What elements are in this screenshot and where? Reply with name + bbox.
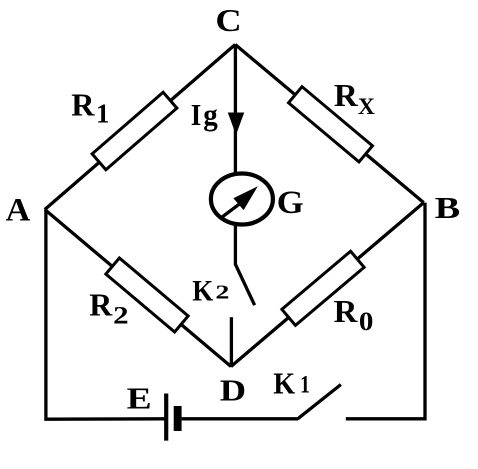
wire galvanometer to K2	[234, 226, 237, 265]
switch K2 blade	[235, 264, 254, 305]
node C label	[215, 2, 241, 38]
svg-text:C: C	[215, 2, 241, 38]
resistor R0	[282, 251, 364, 325]
label K2	[192, 274, 229, 307]
label E	[127, 381, 152, 416]
galvanometer G	[211, 174, 273, 225]
svg-text:R: R	[71, 87, 95, 123]
resistor R2	[106, 258, 188, 332]
svg-text:g: g	[203, 98, 218, 132]
svg-text:A: A	[6, 193, 31, 229]
wire C-B (bridge arm)	[235, 45, 424, 203]
wire K1 to bottom-right corner and right rail to B	[346, 203, 425, 419]
svg-text:D: D	[220, 373, 246, 408]
node A label	[6, 193, 31, 229]
wire C to galvanometer	[234, 45, 237, 177]
current arrow Ig	[228, 113, 244, 136]
svg-text:G: G	[277, 185, 304, 221]
label Ig	[191, 98, 218, 132]
resistor RX	[289, 87, 373, 162]
svg-text:0: 0	[359, 307, 374, 336]
node D label	[220, 373, 246, 408]
label RX	[334, 77, 375, 119]
label G	[277, 185, 304, 221]
battery E short plate	[174, 406, 182, 431]
wire K2 contact to D	[230, 317, 233, 367]
svg-text:K: K	[192, 274, 214, 307]
label K1	[273, 365, 310, 400]
svg-text:K: K	[273, 365, 295, 400]
switch K1 blade	[298, 385, 341, 419]
svg-text:R: R	[334, 77, 359, 113]
svg-text:1: 1	[96, 99, 110, 129]
label R1	[71, 87, 109, 129]
label R0	[334, 293, 374, 336]
svg-text:X: X	[358, 94, 375, 119]
svg-text:2: 2	[113, 302, 129, 329]
node B label	[435, 190, 460, 225]
wire battery to K1	[182, 417, 299, 420]
svg-text:2: 2	[215, 282, 229, 304]
svg-text:B: B	[435, 190, 460, 225]
svg-text:I: I	[191, 98, 202, 132]
label R2	[89, 287, 128, 330]
svg-text:R: R	[334, 293, 359, 329]
battery E long plate	[164, 394, 168, 441]
svg-text:R: R	[89, 287, 113, 323]
resistor R1	[92, 92, 177, 169]
wire A-D (bridge arm)	[45, 210, 231, 367]
wire D-B (bridge arm)	[231, 203, 424, 367]
svg-text:1: 1	[300, 372, 310, 399]
svg-text:E: E	[127, 381, 152, 416]
wire A-C (bridge arm)	[45, 45, 235, 210]
wire left rail A to bottom-left corner	[46, 210, 165, 420]
